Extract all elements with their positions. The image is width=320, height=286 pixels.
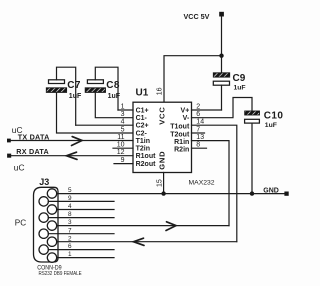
junction GND at IC pin 15 (161, 191, 165, 195)
wire J3 pin 3 to R1in riser (57, 225, 229, 227)
svg-text:6: 6 (196, 111, 200, 118)
J3 pin 3 circle (47, 221, 56, 230)
svg-text:R1out: R1out (136, 153, 157, 160)
svg-text:GND: GND (157, 151, 166, 170)
wire RX DATA from pin 12 R1out (11, 155, 133, 157)
svg-text:MAX232: MAX232 (189, 179, 215, 186)
svg-text:V+: V+ (181, 107, 190, 114)
svg-text:1uF: 1uF (234, 85, 246, 92)
J3 pin 5 circle (47, 189, 56, 198)
connector J3 DB9 body (34, 187, 59, 262)
svg-text:T1out: T1out (170, 124, 190, 131)
svg-text:R2out: R2out (136, 161, 157, 168)
svg-text:GND: GND (263, 187, 279, 194)
svg-text:C10: C10 (264, 111, 284, 122)
svg-text:C1-: C1- (136, 115, 148, 122)
svg-text:C1+: C1+ (136, 107, 149, 114)
svg-text:4: 4 (121, 119, 125, 126)
J3 pin 6 circle (39, 245, 48, 254)
J3 pin 1 circle (47, 253, 56, 262)
pin 14 lead T1out and riser down (192, 125, 237, 242)
arrow on TX wire pointing right (72, 137, 83, 146)
svg-text:8: 8 (196, 142, 200, 149)
svg-text:R2in: R2in (174, 147, 189, 154)
svg-text:C9: C9 (233, 73, 246, 84)
svg-text:RS232 DB9 FEMALE: RS232 DB9 FEMALE (39, 271, 82, 277)
wire GND rail from J3 pin 5 (57, 193, 285, 195)
svg-text:13: 13 (196, 134, 204, 141)
capacitor C8 (85, 80, 105, 93)
arrow on RX wire pointing left (67, 152, 78, 159)
svg-text:9: 9 (121, 157, 125, 164)
capacitor C10 (245, 111, 260, 123)
svg-text:7: 7 (196, 126, 200, 133)
svg-text:R1in: R1in (174, 139, 189, 146)
svg-text:uC: uC (14, 162, 25, 172)
wire C8 top loop to pin 1 C1+ (95, 67, 118, 110)
wire VCC junction to pin 16 branch (164, 56, 222, 102)
wire VCC terminal down to junction (221, 17, 223, 56)
J3 pin 6 stub wire (48, 249, 114, 251)
pin 13 lead R1in and riser down (192, 141, 230, 226)
wire TX DATA to pin 11 T1in (11, 140, 133, 142)
svg-text:16: 16 (157, 87, 164, 95)
J3 pin 9 stub wire (48, 200, 114, 202)
svg-text:3: 3 (121, 111, 125, 118)
svg-text:U1: U1 (136, 88, 149, 99)
junction C10 GND (250, 191, 254, 195)
svg-text:C2+: C2+ (136, 123, 149, 130)
node RX DATA terminal square (7, 154, 11, 158)
svg-text:14: 14 (196, 119, 204, 126)
wire C7 top loop to pin 4 C2+ (57, 67, 76, 125)
pin 9 lead stub R2out (114, 163, 133, 165)
svg-text:5: 5 (121, 126, 125, 133)
J3 pin 4 stub wire (57, 209, 114, 211)
pin 2 lead V+ (192, 109, 222, 111)
svg-text:T2in: T2in (136, 146, 150, 153)
svg-text:RX DATA: RX DATA (16, 147, 49, 156)
arrow on pin2 wire pointing left (134, 238, 145, 245)
J3 pin 7 stub wire (48, 233, 114, 235)
svg-text:V-: V- (183, 115, 190, 122)
node TX DATA terminal square (7, 139, 11, 143)
wire C10 bottom to GND rail (251, 123, 253, 194)
pin 4 lead segment to IC (76, 124, 133, 126)
svg-text:PC: PC (15, 219, 26, 228)
IC U1 MAX232 body (133, 102, 192, 172)
svg-text:1uF: 1uF (265, 122, 277, 129)
capacitor C7 (46, 80, 66, 93)
svg-text:2: 2 (196, 103, 200, 110)
pin 10 lead stub T2in (113, 147, 133, 149)
svg-text:1uF: 1uF (108, 93, 121, 100)
power terminal GND square (284, 192, 288, 196)
wire VCC junction down to C9 (221, 56, 223, 73)
J3 pin 8 stub wire (48, 217, 114, 219)
J3 pin 8 circle (39, 213, 48, 222)
pin 7 lead stub T2out (192, 132, 205, 134)
J3 pin 1 stub wire (57, 257, 114, 259)
svg-text:10: 10 (117, 142, 125, 149)
arrow on pin3 wire pointing right (166, 222, 176, 231)
pin 1 lead C1+ (118, 109, 133, 111)
J3 pin 7 circle (39, 229, 48, 238)
pin 15 lead GND (163, 173, 165, 194)
J3 pin 9 circle (39, 197, 48, 206)
J3 pin 2 circle (47, 237, 56, 246)
svg-text:C2-: C2- (136, 130, 148, 137)
junction VCC node (219, 54, 223, 58)
pin 8 lead stub R2in (192, 147, 207, 149)
wire C7 bottom to pin 5 C2- (57, 92, 134, 133)
J3 pin 4 circle (47, 205, 56, 214)
wire J3 pin 2 to T1out riser (57, 241, 237, 243)
svg-text:1: 1 (121, 103, 125, 110)
svg-text:C7: C7 (67, 80, 81, 91)
pin 6 lead V- to C10 riser (192, 98, 253, 118)
wire C9 to V+ pin 2 (221, 85, 223, 110)
svg-text:VCC 5V: VCC 5V (184, 12, 210, 21)
svg-text:T1in: T1in (136, 138, 150, 145)
svg-text:T2out: T2out (170, 131, 190, 138)
svg-text:VCC: VCC (157, 106, 166, 124)
svg-text:J3: J3 (39, 177, 49, 187)
wire C8 bottom to pin 3 C1- (95, 92, 133, 117)
power terminal VCC (219, 12, 224, 17)
capacitor C9 (213, 73, 229, 85)
svg-text:15: 15 (157, 179, 164, 187)
